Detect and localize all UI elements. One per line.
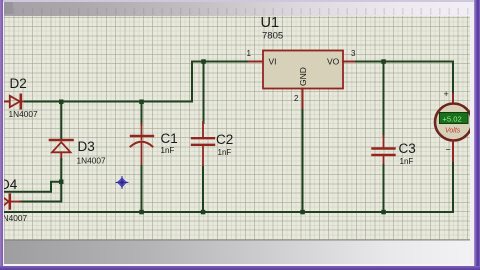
svg-text:2: 2 [294, 94, 299, 103]
node junction at D3 top [59, 100, 64, 105]
wire C3 bottom to ground bus [383, 165, 385, 212]
node junction on D3 branch [59, 180, 64, 185]
svg-text:D2: D2 [10, 76, 27, 91]
top toolbar bar [4, 1, 470, 16]
wire input to D2 anode [0, 101, 9, 103]
svg-text:1nF: 1nF [400, 157, 414, 166]
wire regulator output to voltmeter [356, 62, 453, 96]
capacitor C2 [192, 122, 214, 168]
diode D4 [0, 195, 20, 209]
svg-text:+5.02: +5.02 [443, 115, 462, 124]
svg-text:Volts: Volts [445, 128, 461, 135]
wire D3 anode down to D4 branch [20, 159, 61, 202]
node junction C1 top [139, 100, 144, 105]
voltmeter display [440, 113, 469, 124]
pin 2 wire of U1 (GND) [302, 89, 304, 112]
pin 1 wire of U1 [249, 61, 263, 63]
svg-text:D3: D3 [78, 139, 95, 154]
node junction regulator input / C2 [201, 59, 206, 64]
node junction U1 GND bottom [300, 210, 305, 215]
svg-text:3: 3 [351, 49, 356, 58]
wire C1 bottom to ground bus [141, 166, 143, 212]
svg-text:C3: C3 [399, 141, 416, 156]
svg-text:GND: GND [298, 67, 308, 86]
svg-text:1N4007: 1N4007 [9, 109, 38, 119]
voltmeter minus pin [452, 141, 454, 164]
svg-text:U1: U1 [261, 15, 280, 31]
wire C2 top lead [203, 62, 205, 124]
node junction C2 bottom [201, 210, 206, 215]
wire C2 bottom to ground bus [202, 167, 204, 212]
svg-text:VO: VO [327, 57, 340, 67]
wire D3 top lead [60, 102, 62, 139]
node junction C3 top [381, 59, 386, 64]
svg-text:−: − [446, 145, 451, 155]
wire step from node to left edge [0, 182, 61, 192]
wire C3 top lead [383, 62, 385, 138]
svg-text:C1: C1 [161, 131, 178, 146]
wire D2 cathode to regulator input node [25, 62, 250, 102]
origin marker crosshair [116, 177, 128, 189]
svg-text:1N4007: 1N4007 [77, 155, 106, 165]
wire C1 top lead [141, 102, 143, 126]
svg-text:7805: 7805 [262, 31, 283, 42]
node junction C3 bottom [381, 210, 386, 215]
svg-text:VI: VI [269, 57, 277, 67]
svg-text:+: + [444, 89, 449, 99]
svg-text:1: 1 [247, 49, 252, 58]
capacitor C1 [131, 124, 154, 167]
node junction C1 bottom [139, 210, 144, 215]
svg-text:1nF: 1nF [161, 146, 175, 155]
svg-text:C2: C2 [216, 132, 233, 147]
capacitor C3 [373, 136, 395, 166]
pin 3 wire of U1 [343, 61, 357, 63]
diode D2 [10, 95, 26, 108]
voltmeter body [435, 104, 472, 141]
ground bus wire [0, 163, 453, 212]
op-amp U1 regulator body 7805 [263, 51, 343, 89]
purple window frame [0, 0, 480, 2]
wire U1 GND to ground bus [302, 110, 304, 212]
bottom status bar [4, 240, 470, 264]
diode D3 [50, 140, 73, 160]
voltmeter plus pin [452, 94, 454, 103]
svg-text:1nF: 1nF [218, 148, 232, 157]
white inner frame [3, 1, 4, 265]
